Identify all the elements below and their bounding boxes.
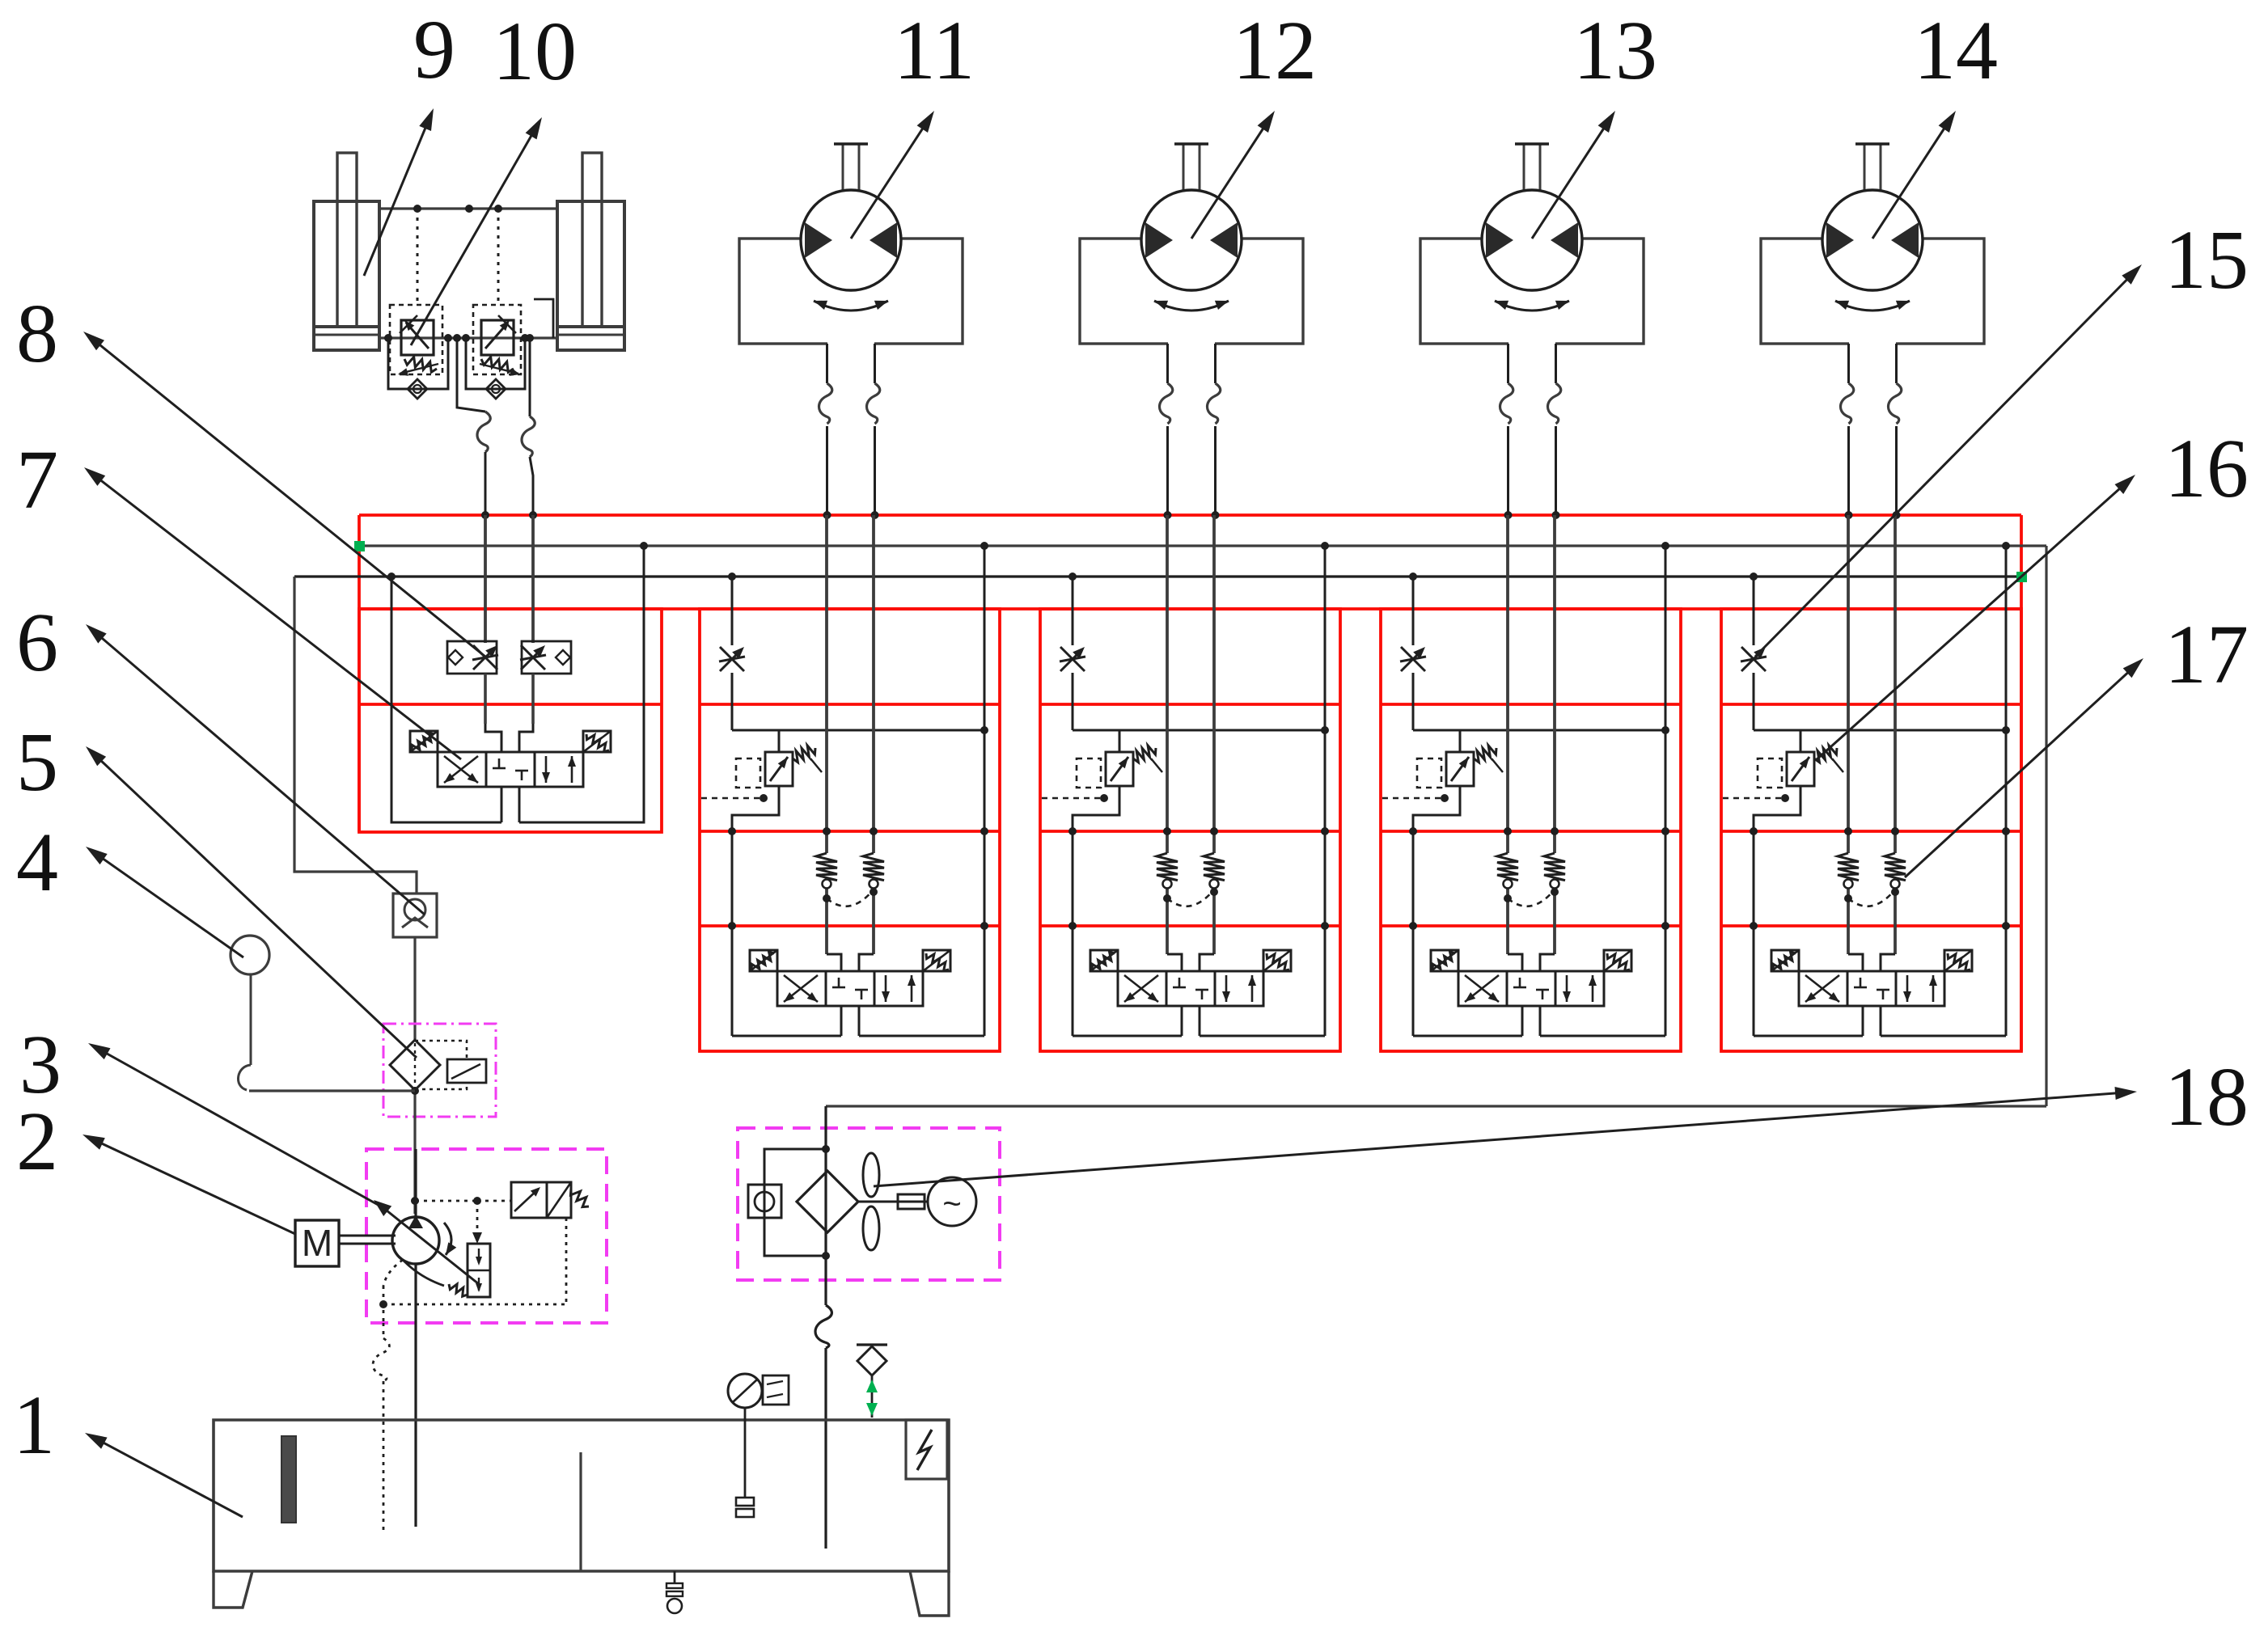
svg-text:18: 18 bbox=[2164, 1050, 2249, 1143]
svg-text:17: 17 bbox=[2164, 608, 2249, 701]
svg-text:3: 3 bbox=[19, 1018, 61, 1111]
svg-text:14: 14 bbox=[1914, 4, 1998, 97]
svg-text:7: 7 bbox=[16, 433, 58, 526]
svg-text:10: 10 bbox=[493, 5, 577, 98]
svg-text:8: 8 bbox=[16, 287, 58, 380]
svg-text:M: M bbox=[302, 1222, 332, 1264]
svg-text:9: 9 bbox=[413, 3, 455, 96]
svg-text:4: 4 bbox=[16, 816, 58, 909]
svg-text:6: 6 bbox=[16, 596, 58, 689]
svg-text:12: 12 bbox=[1233, 4, 1317, 97]
svg-text:13: 13 bbox=[1573, 4, 1657, 97]
svg-text:~: ~ bbox=[942, 1186, 961, 1222]
svg-text:1: 1 bbox=[13, 1379, 55, 1472]
svg-text:11: 11 bbox=[894, 4, 975, 97]
svg-text:16: 16 bbox=[2164, 422, 2249, 515]
svg-text:15: 15 bbox=[2164, 213, 2249, 306]
svg-text:5: 5 bbox=[16, 716, 58, 809]
